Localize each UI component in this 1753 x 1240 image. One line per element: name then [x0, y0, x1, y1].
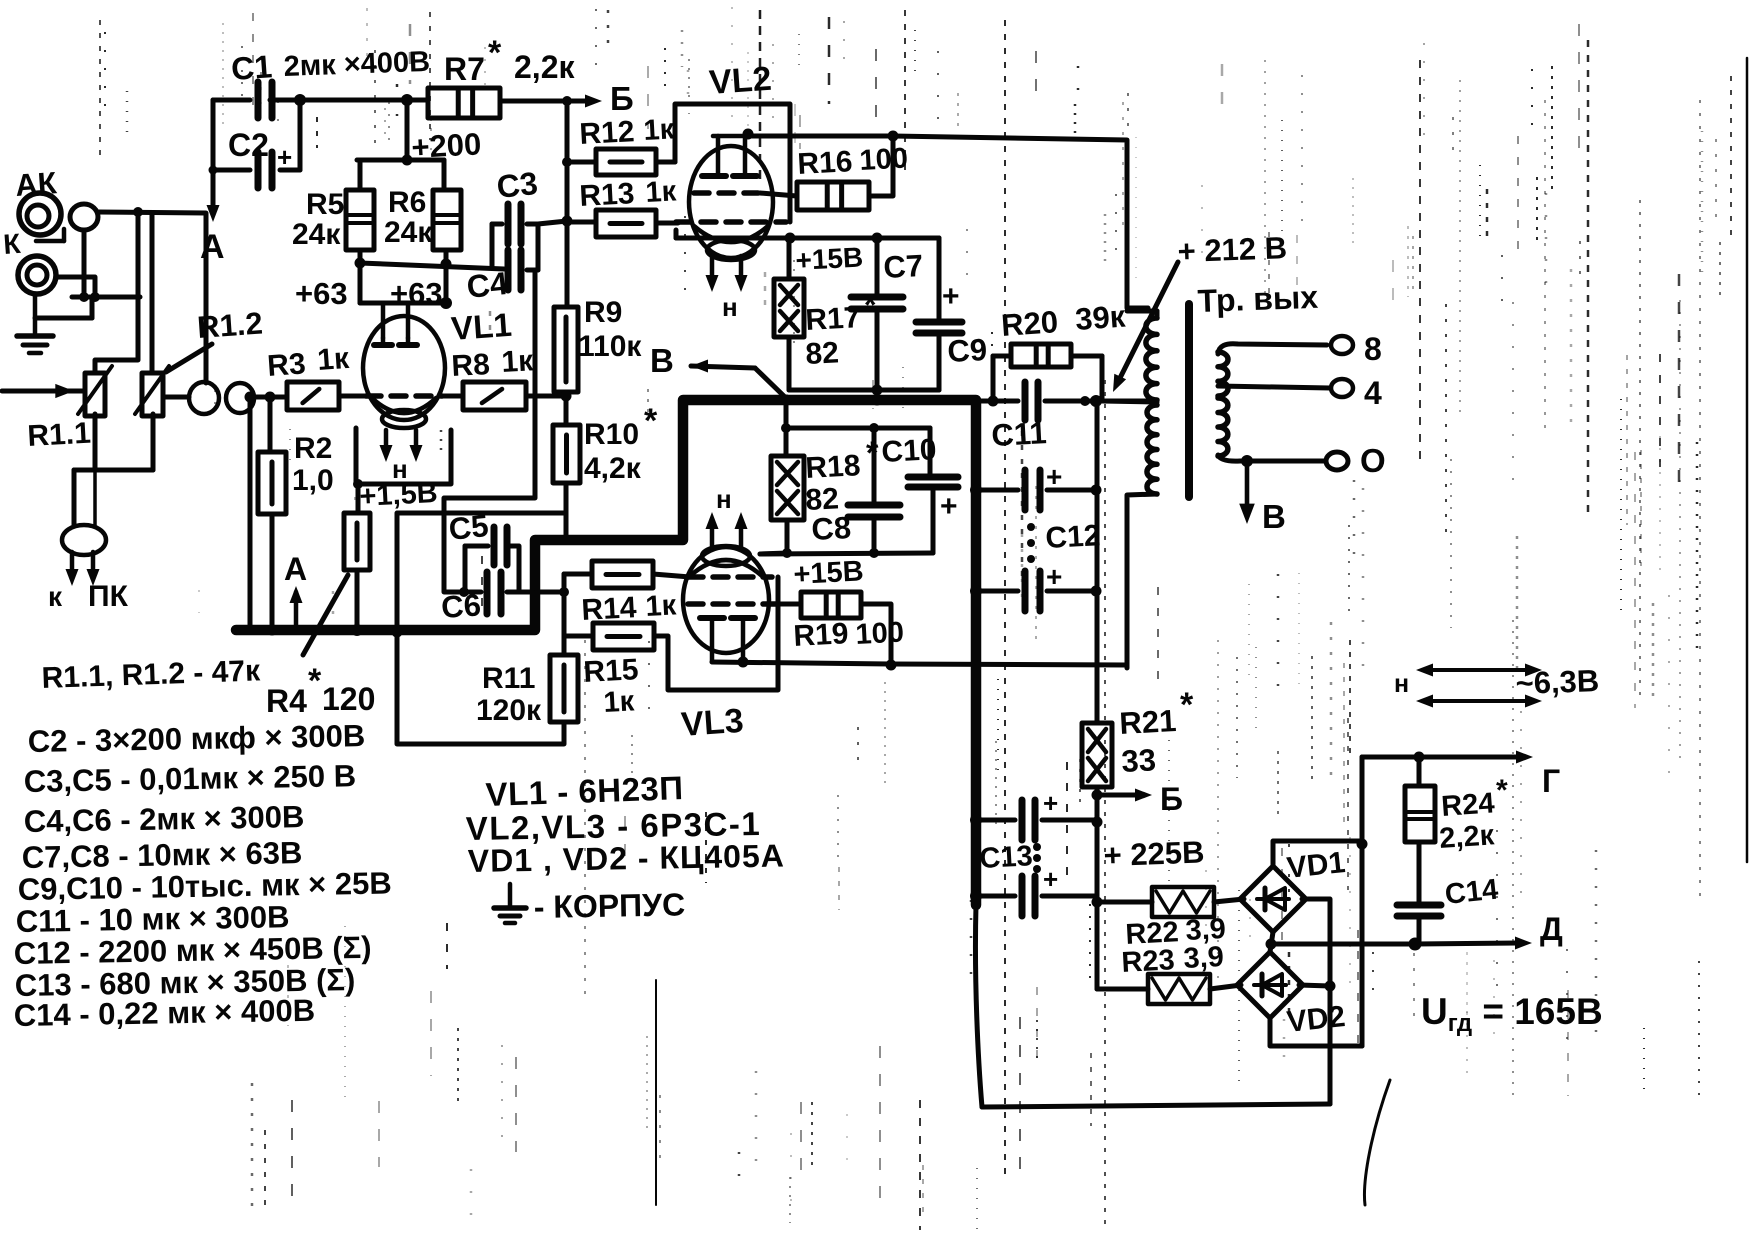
- svg-text:33: 33: [1121, 742, 1157, 779]
- svg-text:120к: 120к: [476, 694, 542, 727]
- wire jack top rail: [98, 207, 206, 383]
- label R1.2 pointer: [166, 306, 264, 372]
- label C3: [495, 165, 539, 205]
- label Uгд=165В: [1421, 991, 1603, 1037]
- page edge line: [1746, 58, 1749, 862]
- terminal 8: [1331, 331, 1382, 367]
- label R17* 82: [805, 287, 877, 371]
- resistor R19: [774, 592, 861, 618]
- capacitor C7: [851, 238, 903, 390]
- terminal 0: [1326, 442, 1386, 479]
- svg-text:+63: +63: [390, 276, 443, 311]
- label +15В (VL3): [793, 555, 865, 591]
- transformer primary tap: [1102, 401, 1157, 402]
- wire jack2 to node: [56, 277, 95, 297]
- note VD1,VD2 type: [467, 837, 785, 879]
- svg-text:*: *: [1496, 774, 1508, 807]
- note C13: [15, 962, 356, 1003]
- wire C3/C4 to grid node: [538, 221, 567, 224]
- wire R23 to VD2: [1210, 985, 1241, 989]
- label VD1: [1285, 846, 1346, 885]
- wire R14/R15 bracket: [562, 574, 567, 636]
- label VL3: [680, 702, 745, 744]
- svg-text:VD2: VD2: [1285, 1000, 1346, 1039]
- potentiometer R1.2: [135, 366, 169, 416]
- label R7* 2,2к: [444, 34, 575, 87]
- wire Г rail: [1362, 752, 1425, 763]
- label R24* 2,2к: [1438, 774, 1508, 855]
- svg-text:VL3: VL3: [680, 702, 745, 744]
- resistor R3: [287, 382, 339, 410]
- wire R7 to Б arrow: [500, 95, 602, 108]
- svg-text:39к: 39к: [1074, 299, 1127, 337]
- svg-text:+63: +63: [295, 276, 348, 311]
- svg-text:С10: С10: [881, 433, 938, 469]
- wire R19 to anode rail: [861, 604, 897, 671]
- svg-text:*: *: [1180, 686, 1194, 724]
- svg-text:100: 100: [855, 617, 905, 651]
- svg-text:к: к: [48, 581, 63, 612]
- label C10: [881, 433, 938, 469]
- label н VL2: [722, 292, 738, 322]
- wire drop x138: [95, 212, 138, 373]
- svg-text:С13: С13: [979, 840, 1034, 875]
- capacitor C14: [1397, 842, 1441, 944]
- label R14 1к: [581, 589, 678, 627]
- svg-text:82: 82: [805, 336, 840, 371]
- diode VD2: [1237, 952, 1303, 1018]
- wire R9 bottom to plate node: [561, 391, 572, 426]
- capacitor C3: [492, 204, 521, 244]
- note C7,C8: [22, 835, 303, 875]
- svg-text:С11: С11: [991, 415, 1048, 453]
- note R1.1,R1.2-47к: [41, 654, 261, 695]
- pointer +212В: [1113, 262, 1178, 392]
- resistor R4: [344, 513, 370, 570]
- label C2: [228, 127, 269, 163]
- svg-text:Г: Г: [1542, 763, 1560, 799]
- label н VL3: [716, 484, 732, 514]
- svg-text:2,2к: 2,2к: [1438, 819, 1495, 855]
- svg-text:+: +: [1046, 461, 1062, 492]
- ground symbol jack: [17, 336, 53, 353]
- capacitor C4: [508, 250, 521, 290]
- svg-text:н: н: [716, 484, 732, 514]
- resistor R24: [1405, 757, 1435, 842]
- wire R2 bottom to bus: [267, 514, 278, 636]
- resistor R8: [463, 382, 526, 410]
- label Г: [1542, 763, 1560, 799]
- svg-text:К: К: [2, 228, 22, 260]
- svg-text:R12: R12: [579, 115, 636, 151]
- wire +200 split: [357, 160, 444, 190]
- label VD2: [1285, 1000, 1346, 1039]
- svg-text:С4: С4: [465, 265, 510, 305]
- svg-text:+: +: [1046, 561, 1062, 592]
- label +15В (VL2): [795, 241, 864, 276]
- wire VL1 to R8: [443, 394, 463, 399]
- svg-text:С12: С12: [1045, 519, 1102, 555]
- label C12: [1045, 519, 1102, 555]
- net arrow Б (screen): [1097, 789, 1152, 802]
- svg-text:R10: R10: [584, 418, 639, 451]
- svg-text:120: 120: [322, 681, 375, 717]
- wire +212 to R21: [1095, 401, 1100, 723]
- svg-text:R1.1: R1.1: [27, 417, 92, 453]
- wire doubler mid node: [1266, 932, 1277, 952]
- svg-text:О: О: [1360, 442, 1386, 479]
- svg-text:24к: 24к: [292, 218, 341, 251]
- arrows to PK: [66, 552, 100, 586]
- heater double arrow upper: [1416, 664, 1542, 677]
- tube VL1 cathode arc: [372, 398, 436, 428]
- svg-text:R19: R19: [793, 617, 850, 653]
- resistor R22: [1097, 887, 1214, 917]
- capacitor C13 upper: [970, 788, 1097, 840]
- label В (mid): [650, 342, 674, 379]
- note C4,C6: [24, 799, 305, 839]
- artifact curve bottom right: [1364, 1080, 1390, 1205]
- capacitor C6: [464, 572, 501, 614]
- tube VL2 heater arrows: [706, 256, 748, 292]
- label н (heater): [1394, 670, 1409, 698]
- capacitor C13 dots: [1033, 843, 1041, 873]
- wire C2 right riser: [209, 94, 307, 175]
- svg-text:С2: С2: [228, 127, 269, 163]
- resistor R18: [771, 428, 804, 520]
- diode VD1: [1240, 866, 1306, 932]
- capacitor C11: [976, 382, 1102, 420]
- svg-text:С4,С6 - 2мк × 300В: С4,С6 - 2мк × 300В: [24, 799, 305, 839]
- svg-text:R21: R21: [1119, 703, 1178, 741]
- wire R2 top: [265, 392, 276, 453]
- wire R18 bottom: [782, 520, 792, 558]
- wire R11 bottom return: [392, 627, 565, 745]
- svg-text:С3,С5 - 0,01мк × 250 В: С3,С5 - 0,01мк × 250 В: [24, 758, 357, 799]
- wire VL3 cathode lead: [760, 553, 788, 554]
- connector ferrule left: [189, 382, 219, 414]
- wire pot wiper to ferrule: [163, 395, 189, 400]
- svg-text:R24: R24: [1440, 787, 1495, 823]
- svg-text:н: н: [392, 454, 408, 484]
- label R11 120к: [476, 662, 542, 727]
- wire doubler top frame: [1273, 839, 1368, 867]
- wire R15 route under VL3: [654, 577, 778, 690]
- note C11: [16, 899, 290, 939]
- label +63 right: [390, 276, 443, 311]
- svg-text:+ 225В: + 225В: [1103, 834, 1205, 872]
- label н VL1: [392, 454, 408, 484]
- tube VL3 cathode arc: [690, 546, 762, 576]
- jack AK sleeve step: [36, 229, 64, 241]
- svg-text:+ 212 В: + 212 В: [1177, 230, 1288, 269]
- label R20 39к: [1000, 299, 1127, 343]
- wire VL2 top route: [675, 104, 790, 222]
- wire R4 to bus: [351, 570, 363, 636]
- tube VL2 grid1 dashes: [676, 219, 786, 225]
- resistor R17: [774, 238, 804, 337]
- svg-text:ПК: ПК: [88, 580, 129, 613]
- label +1,5В: [359, 477, 439, 513]
- jack AK outer: [19, 193, 61, 235]
- label АК: [14, 165, 58, 203]
- capacitor C2: [213, 142, 300, 188]
- svg-text:С3: С3: [495, 165, 539, 205]
- label В (secondary): [1262, 498, 1286, 535]
- tube VL3 grid1 dashes: [688, 574, 772, 580]
- label +225В: [1103, 834, 1205, 872]
- wire C3/C4 down-feed: [444, 270, 535, 597]
- svg-text:R13: R13: [579, 177, 636, 213]
- label R16 100: [797, 143, 909, 181]
- wire cathode net y553: [760, 553, 933, 554]
- net arrow В (mid): [691, 360, 792, 406]
- svg-text:С7: С7: [883, 248, 924, 285]
- shield loop to PK: [62, 525, 106, 555]
- svg-text:3,9: 3,9: [1183, 941, 1225, 975]
- label R2 1,0: [292, 432, 334, 497]
- label К (jack): [2, 228, 22, 260]
- wire R22 to VD1: [1214, 899, 1244, 902]
- resistor R10: [553, 425, 580, 483]
- node label A (top): [200, 228, 225, 266]
- wire R21 bottom: [1092, 787, 1103, 989]
- svg-text:н: н: [722, 292, 738, 322]
- note VL1 type: [485, 769, 684, 813]
- tube VL2 cathode arc: [694, 226, 768, 260]
- svg-text:С1: С1: [230, 48, 273, 87]
- resistor R9: [554, 221, 578, 392]
- wire anode rail y303: [360, 297, 452, 309]
- svg-text:*: *: [644, 402, 658, 440]
- svg-text:VL2: VL2: [708, 60, 773, 102]
- svg-text:VD1: VD1: [1285, 846, 1346, 885]
- label R1.1 (pot): [27, 417, 92, 453]
- label R5 24к: [292, 188, 344, 251]
- svg-text:С5: С5: [447, 508, 490, 547]
- tube VL3 envelope: [683, 547, 769, 653]
- svg-text:R3: R3: [266, 347, 307, 383]
- note C2: [28, 718, 366, 759]
- wire secondary tap 0: [1241, 455, 1253, 467]
- svg-text:*: *: [308, 662, 322, 700]
- wire R18 riser: [781, 395, 792, 429]
- wire top net y428: [781, 423, 930, 433]
- svg-text:1к: 1к: [316, 342, 351, 377]
- pointer R4: [303, 575, 348, 655]
- svg-text:1к: 1к: [603, 685, 636, 719]
- capacitor C9: [916, 238, 962, 390]
- potentiometer R1.1: [78, 366, 112, 416]
- note C9,C10: [18, 865, 392, 907]
- net arrow Г: [1419, 751, 1533, 764]
- svg-text:С9: С9: [947, 332, 988, 369]
- svg-text:~6,3В: ~6,3В: [1515, 663, 1600, 701]
- wire R8 to plate node: [526, 394, 567, 399]
- wire C13 minus return: [975, 905, 1330, 1107]
- svg-text:R7: R7: [444, 51, 485, 87]
- tube VL2 envelope: [689, 146, 773, 258]
- label R12 1к: [579, 113, 676, 151]
- wire C6 to thick riser: [519, 590, 533, 595]
- wire bottom net y390: [789, 385, 939, 406]
- label R21* 33: [1119, 686, 1194, 779]
- wire ground jog y513: [397, 513, 566, 630]
- svg-text:+: +: [940, 490, 958, 523]
- wire pot bottoms: [74, 414, 153, 526]
- wire C5/C6 left bracket: [463, 546, 468, 592]
- wire mid rail to Д: [1271, 938, 1422, 951]
- wire VL2 anode to transformer: [752, 136, 1148, 308]
- wire VL2 cathode lead: [762, 236, 790, 241]
- label R8 1к: [451, 344, 535, 383]
- note C12: [14, 930, 372, 971]
- label +200: [411, 126, 483, 165]
- label R19 100: [793, 617, 905, 653]
- wire input to R3: [245, 392, 288, 403]
- svg-text:С14: С14: [1443, 874, 1499, 911]
- svg-text:+: +: [942, 280, 960, 313]
- svg-text:1к: 1к: [501, 344, 535, 379]
- wire secondary tap 4: [1218, 386, 1330, 388]
- note C3,C5: [24, 758, 357, 799]
- wire R20 bracket: [988, 356, 1103, 407]
- note C14: [14, 993, 316, 1033]
- svg-text:R6: R6: [388, 186, 426, 219]
- capacitor C12 lower: [970, 561, 1102, 611]
- svg-text:В: В: [1262, 498, 1286, 535]
- label ~6,3В: [1515, 663, 1600, 701]
- label Б (screen): [1160, 781, 1183, 817]
- wire node y297: [72, 292, 140, 302]
- tube VL3 anode: [700, 618, 755, 668]
- net arrow Д: [1415, 937, 1532, 950]
- svg-text:С2 - 3×200 мкф × 300В: С2 - 3×200 мкф × 300В: [28, 718, 366, 759]
- label Тр.вых: [1197, 279, 1319, 319]
- svg-text:R20: R20: [1000, 304, 1059, 343]
- wire main B+ rail top: [270, 94, 428, 106]
- svg-text:Б: Б: [1160, 781, 1183, 817]
- svg-text:R16: R16: [797, 145, 854, 181]
- wire R16 to anode node: [869, 131, 899, 197]
- note КОРПУС: [533, 886, 685, 925]
- wire grid feed to R14/R15: [537, 587, 569, 597]
- label C13: [979, 840, 1034, 875]
- wire doubler right rail: [1360, 757, 1365, 1046]
- label R22 3,9: [1125, 913, 1227, 951]
- svg-text:С6: С6: [440, 587, 482, 625]
- capacitor C8: [848, 428, 900, 558]
- wire R3 to VL1 grid: [339, 394, 366, 399]
- label R6 24к: [384, 186, 433, 249]
- wire under R5/R6 to C4: [360, 263, 504, 269]
- transformer secondary upper: [1218, 344, 1327, 396]
- wire shield drop to bus: [245, 397, 255, 635]
- wire C5/C6 right bracket: [507, 546, 519, 592]
- wire C3/C4 left bracket: [490, 224, 495, 268]
- wire net A drop from C1/C2 left: [207, 100, 220, 222]
- heater double arrow lower: [1416, 695, 1542, 708]
- jack AK pin ring: [70, 204, 98, 230]
- tube VL1 envelope: [363, 316, 445, 420]
- resistor R5: [346, 190, 374, 250]
- wire R10 bottom to thick bus: [564, 483, 569, 540]
- label C7: [883, 248, 924, 285]
- artifact vertical center bottom: [655, 980, 657, 1205]
- capacitor C12 upper: [970, 461, 1102, 510]
- label C1 2мк ×400В: [230, 46, 431, 87]
- capacitor C13 lower: [970, 864, 1095, 916]
- svg-text:АК: АК: [14, 165, 58, 203]
- net arrow A (bus): [284, 551, 307, 628]
- tube VL3 heater arrows: [706, 512, 748, 548]
- resistor R11: [550, 655, 578, 722]
- label VL2: [708, 60, 773, 102]
- svg-text:R15: R15: [583, 653, 640, 689]
- svg-text:Д: Д: [1540, 911, 1563, 947]
- label C11: [991, 415, 1048, 453]
- wire to R11: [562, 636, 567, 655]
- connector ferrule right: [226, 383, 254, 413]
- wire R14 to VL3 grid1: [653, 574, 690, 577]
- tube VL3 grid2 dashes: [688, 601, 776, 607]
- svg-text:В: В: [650, 342, 674, 379]
- svg-text:С14 - 0,22 мк × 400В: С14 - 0,22 мк × 400В: [14, 993, 316, 1033]
- svg-text:+15В: +15В: [795, 241, 864, 276]
- resistor R16: [760, 182, 869, 210]
- resistor R2: [258, 452, 286, 514]
- resistor R7: [428, 88, 500, 118]
- svg-text:+200: +200: [411, 126, 483, 165]
- label к ПК: [48, 580, 129, 613]
- svg-text:2,2к: 2,2к: [514, 49, 575, 85]
- wire to center tap: [1080, 395, 1148, 407]
- label C4: [465, 265, 510, 305]
- note VL2,VL3 type: [465, 805, 761, 847]
- svg-text:н: н: [1394, 670, 1409, 698]
- svg-text:R9: R9: [584, 296, 622, 329]
- transformer core: [1185, 304, 1193, 497]
- wire +200 feed: [402, 100, 413, 166]
- svg-text:С8: С8: [811, 510, 852, 547]
- svg-text:VD1 , VD2 - КЦ405А: VD1 , VD2 - КЦ405А: [467, 837, 785, 879]
- wire oval drop: [82, 231, 87, 297]
- svg-text:4,2к: 4,2к: [584, 452, 642, 485]
- svg-text:R18: R18: [805, 449, 862, 485]
- label C9: [947, 332, 988, 369]
- svg-text:110к: 110к: [578, 330, 642, 363]
- resistor R23: [1097, 974, 1210, 1004]
- label R18* 82: [805, 435, 879, 517]
- svg-text:100: 100: [859, 143, 909, 177]
- label Д: [1540, 911, 1563, 947]
- label R23 3,9: [1121, 941, 1225, 979]
- svg-text:R23: R23: [1121, 944, 1176, 979]
- svg-text:R11: R11: [482, 662, 535, 695]
- svg-text:+: +: [1043, 788, 1058, 818]
- svg-text:1к: 1к: [645, 175, 678, 209]
- svg-text:8: 8: [1364, 331, 1382, 367]
- label R10* 4,2к: [584, 402, 658, 485]
- ground symbol legend: [494, 884, 526, 923]
- resistor R12: [567, 149, 675, 175]
- capacitor C1: [213, 82, 300, 118]
- svg-text:24к: 24к: [384, 216, 433, 249]
- resistor R20: [993, 344, 1102, 367]
- input arrow: [2, 384, 83, 398]
- svg-text:R4: R4: [266, 683, 307, 719]
- wire VL2 cathode net y238: [676, 230, 939, 244]
